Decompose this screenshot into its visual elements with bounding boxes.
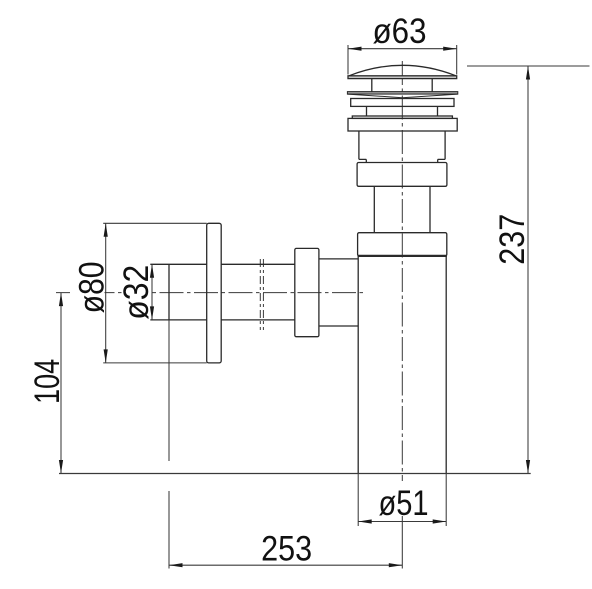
- inlet pipe top wall: [150, 263, 294, 265]
- arrow dim63 right: [443, 47, 457, 51]
- arrow dim253 right: [389, 563, 403, 567]
- thin washer bar: [352, 116, 452, 118]
- thread relief dash line b: [262, 259, 264, 330]
- inlet pipe mouth: [168, 264, 170, 320]
- white gap behind label 80: [70, 260, 105, 314]
- thread relief dash line a: [259, 259, 261, 330]
- lower lock nut: [357, 163, 447, 187]
- dim 253 right extension: [401, 516, 403, 569]
- arrow dim237 down: [526, 460, 530, 474]
- dim 253 left extension: [168, 320, 170, 569]
- arrow dim80 up: [104, 223, 108, 237]
- wall flange plate: [207, 223, 222, 363]
- dim 32 line: [151, 264, 153, 320]
- top locking nut: [348, 118, 457, 131]
- threaded body: [359, 131, 445, 163]
- white gap behind label 32: [123, 260, 150, 321]
- svg-text:ø51: ø51: [379, 484, 429, 523]
- svg-text:237: 237: [493, 214, 532, 265]
- dim 63 line: [348, 48, 457, 50]
- trap cap: [358, 233, 447, 256]
- inlet pipe bottom wall: [150, 319, 294, 321]
- svg-text:ø32: ø32: [117, 265, 156, 320]
- vertical centerline of drain and trap: [401, 61, 403, 481]
- gasket cone underside: [347, 94, 457, 98]
- dim 80 top extension: [103, 222, 207, 224]
- dim 104 line: [60, 293, 62, 474]
- trap inlet stub bottom: [319, 325, 358, 327]
- bottom datum line: [59, 473, 531, 475]
- arrow dim253 left: [169, 563, 183, 567]
- trap body walls: [358, 256, 446, 474]
- dim 237 line: [527, 66, 529, 474]
- rubber gasket: [347, 92, 457, 95]
- arrow dim51 right: [433, 519, 447, 523]
- tailpiece tube: [374, 186, 430, 232]
- dim 80 line: [105, 223, 107, 363]
- arrow dim63 left: [348, 47, 362, 51]
- dim 63 extension left: [347, 45, 349, 75]
- arrow dim237 up: [526, 66, 530, 80]
- dome base plate: [348, 76, 457, 79]
- svg-text:104: 104: [28, 359, 67, 404]
- trap inlet stub top: [319, 258, 358, 260]
- dim 237 top extension: [467, 65, 590, 67]
- dim 63 extension right: [456, 45, 458, 75]
- stem under cap: [372, 79, 432, 92]
- svg-text:ø63: ø63: [373, 12, 427, 51]
- arrow dim104 up: [59, 293, 63, 307]
- dim 51 right extension: [445, 474, 447, 527]
- neck between rings: [367, 106, 438, 116]
- arrow dim80 down: [104, 349, 108, 363]
- dim 253 line: [169, 564, 402, 566]
- dome cap of pop-up drain: [349, 65, 456, 76]
- horizontal centerline of inlet pipe: [56, 292, 366, 294]
- upper ring: [351, 99, 454, 107]
- arrow dim51 left: [358, 519, 372, 523]
- dim 51 line: [358, 521, 446, 523]
- svg-text:ø80: ø80: [72, 261, 111, 313]
- trap cap bottom edge bold: [358, 255, 447, 257]
- dim 51 left extension: [357, 474, 359, 527]
- svg-text:253: 253: [261, 530, 312, 569]
- dim 80 bottom extension: [103, 362, 207, 364]
- compression nut: [295, 248, 319, 336]
- arrow dim32 up: [150, 264, 154, 278]
- arrow dim32 down: [150, 306, 154, 320]
- arrow dim104 down: [59, 460, 63, 474]
